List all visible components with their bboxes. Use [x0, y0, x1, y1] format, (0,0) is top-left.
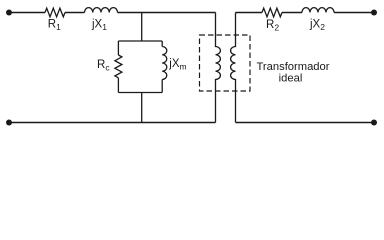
wire: bottom-left rail [9, 122, 216, 124]
wire: shunt branch bottom bar [118, 92, 162, 94]
wire: jXm bottom lead [161, 80, 163, 93]
inductor jX1 [85, 8, 118, 13]
wire: jX1 to transformer primary, top rail [118, 12, 216, 14]
svg-text:jXm: jXm [168, 58, 186, 72]
svg-text:ideal: ideal [279, 73, 303, 85]
svg-text:R2: R2 [266, 19, 279, 33]
wire: Rc top lead [117, 41, 119, 55]
resistor Rc [115, 55, 122, 78]
wire: shunt branch feed to bottom rail [141, 93, 143, 123]
svg-text:jX2: jX2 [309, 19, 325, 33]
wire: jX2 to terminal top-right [334, 12, 374, 14]
wire: shunt branch top bar [118, 40, 162, 42]
terminal dot bottom-left [6, 120, 12, 126]
wire: top-right rail from secondary to R2 [236, 12, 263, 14]
inductor jX2 [302, 8, 334, 13]
wire: R1 to jX1 [65, 12, 85, 14]
wire: shunt branch feed from top rail [141, 13, 143, 42]
wire: bottom-right rail [236, 122, 375, 124]
resistor R1 [45, 8, 65, 17]
dashed box ideal transformer [200, 35, 251, 91]
terminal dot bottom-right [371, 120, 377, 126]
terminal dot top-right [371, 10, 377, 16]
inductor jXm [162, 47, 167, 80]
svg-text:Rc: Rc [97, 59, 110, 73]
terminal dot top-left [6, 10, 12, 16]
svg-text:jX1: jX1 [91, 19, 107, 33]
wire: Rc bottom lead [117, 78, 119, 93]
wire: R2 to jX2 [282, 12, 302, 14]
transformer primary winding [216, 13, 221, 123]
resistor R2 [262, 8, 282, 17]
transformer secondary winding [231, 13, 236, 123]
svg-text:R1: R1 [48, 19, 61, 33]
svg-text:Transformador: Transformador [257, 61, 330, 73]
wire: top-left rail from terminal to R1 [9, 12, 45, 14]
wire: jXm top lead [161, 41, 163, 47]
